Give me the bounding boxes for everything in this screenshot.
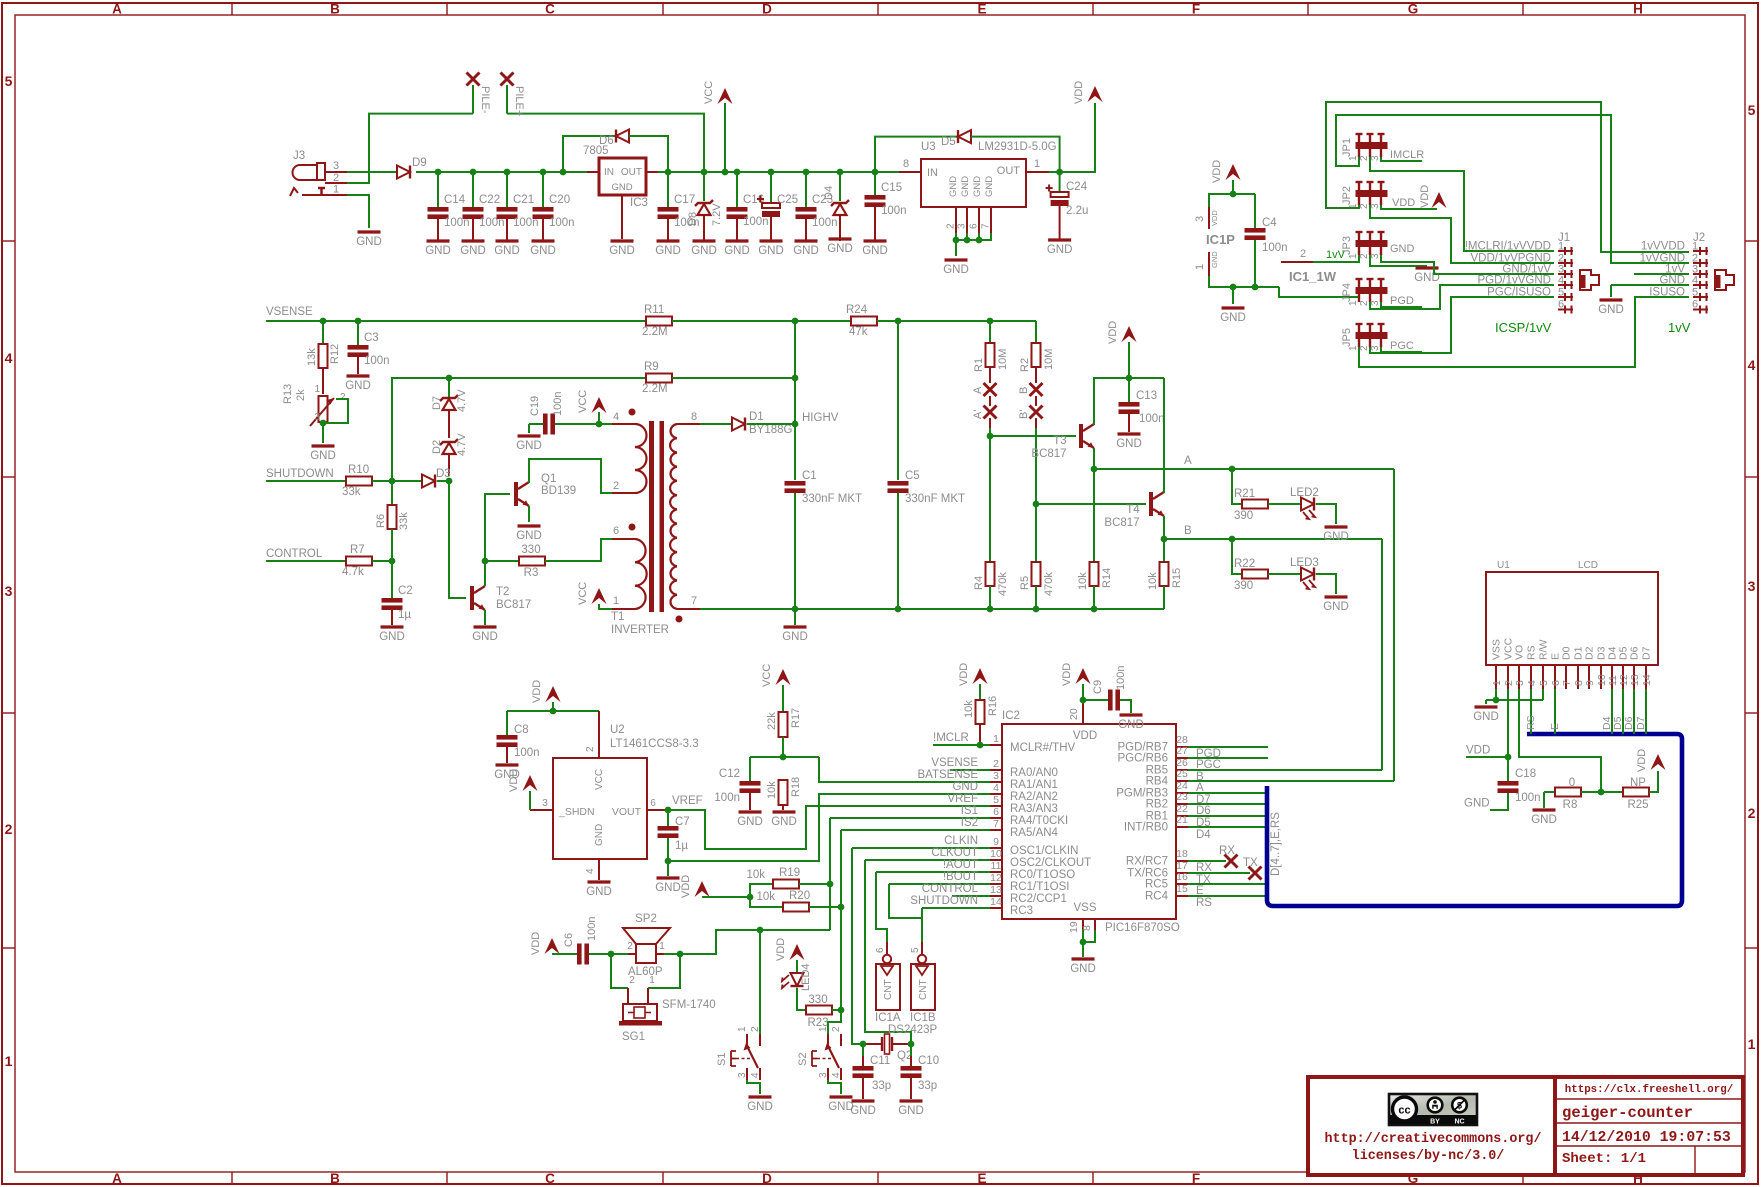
junction C5 top: [895, 318, 902, 325]
svg-text:4: 4: [1748, 357, 1756, 373]
ground T2: [474, 625, 497, 628]
ground C11: [852, 1099, 875, 1102]
svg-text:6: 6: [875, 947, 886, 953]
svg-text:2: 2: [750, 1026, 761, 1032]
svg-text:VDD: VDD: [1211, 160, 1223, 183]
ground C21: [496, 239, 519, 242]
ground Q1: [518, 524, 541, 527]
connector J3: [290, 150, 347, 196]
net stub PGC IC2: [1188, 758, 1268, 771]
svg-text:3: 3: [1194, 216, 1206, 222]
svg-text:VSS: VSS: [1073, 902, 1096, 914]
wire R7 to junction: [372, 560, 392, 562]
svg-text:GND: GND: [655, 882, 681, 894]
svg-text:GND: GND: [530, 245, 556, 257]
svg-text:4: 4: [613, 411, 619, 423]
svg-text:H: H: [1633, 2, 1643, 17]
wire VREF to IC2 pin5: [668, 806, 990, 849]
svg-text:1: 1: [1558, 241, 1564, 253]
wire JP5 pin2 to J1 pin5: [1370, 297, 1554, 353]
svg-text:S1: S1: [716, 1053, 728, 1066]
junction rail C22: [470, 169, 477, 176]
svg-text:C17: C17: [674, 194, 695, 206]
svg-text:12: 12: [990, 872, 1002, 884]
svg-text:6: 6: [650, 798, 656, 809]
junction R20 right: [838, 904, 845, 911]
capacitor C1: [785, 470, 863, 608]
svg-text:100n: 100n: [1115, 666, 1127, 690]
svg-text:R5: R5: [1019, 576, 1031, 590]
wire IC1P to JP4 pin1: [1279, 287, 1359, 302]
svg-text:1: 1: [1348, 253, 1359, 259]
svg-text:4: 4: [5, 350, 13, 366]
ground LCD: [1475, 705, 1498, 708]
svg-text:D6: D6: [1629, 646, 1641, 660]
svg-text:6: 6: [1692, 299, 1698, 311]
junction IC1P gnd: [1230, 284, 1237, 291]
resistor R21: [1234, 488, 1268, 522]
svg-text:IC3: IC3: [630, 197, 648, 209]
wire C7 gnd stem: [667, 861, 669, 876]
U3 ground pins 2 3 6 7: [946, 207, 992, 256]
wire R3 to T1 pin6: [545, 539, 614, 561]
svg-text:R21: R21: [1234, 488, 1255, 500]
svg-text:F: F: [1192, 2, 1200, 17]
capacitor C23: [796, 172, 838, 241]
svg-text:LT1461CCS8-3.3: LT1461CCS8-3.3: [610, 738, 699, 750]
svg-text:INVERTER: INVERTER: [611, 624, 669, 636]
connector J1: [1465, 232, 1599, 314]
junction A LED branch: [1229, 466, 1236, 473]
wire SG1 pin1: [648, 954, 680, 988]
wire R13 bottom: [322, 422, 324, 443]
wire BATSENSE to IC2 pin3: [819, 757, 990, 782]
microcontroller IC2 PIC16F870SO: [990, 697, 1188, 934]
wire LED2 gnd: [1316, 504, 1336, 524]
svg-text:RC1/T1OSI: RC1/T1OSI: [1010, 881, 1069, 893]
ground JP3: [1416, 266, 1439, 269]
junction C4 gnd: [1252, 284, 1259, 291]
svg-text:GND: GND: [494, 245, 520, 257]
svg-text:geiger-counter: geiger-counter: [1562, 1104, 1693, 1122]
wire R21 to LED2: [1268, 503, 1301, 505]
wire gnd net to IC2 pin4: [668, 794, 990, 861]
svg-text:10k: 10k: [1147, 572, 1159, 590]
svg-text:14/12/2010 19:07:53: 14/12/2010 19:07:53: [1562, 1130, 1731, 1146]
svg-text:390: 390: [1234, 580, 1253, 592]
svg-text:VDD: VDD: [1636, 749, 1648, 772]
svg-text:ICSP/1vV: ICSP/1vV: [1495, 320, 1552, 335]
svg-text:4: 4: [585, 868, 596, 874]
svg-text:GND: GND: [1220, 312, 1246, 324]
ground C19: [518, 434, 541, 437]
svg-text:27: 27: [1176, 745, 1188, 757]
svg-text:1: 1: [314, 384, 320, 395]
svg-text:4: 4: [831, 1072, 842, 1078]
svg-text:C12: C12: [719, 768, 740, 780]
wire IS2 S2 column: [828, 830, 841, 1034]
net stub PGD IC2: [1188, 747, 1268, 760]
net cross B prime: [1018, 406, 1043, 420]
svg-text:GND: GND: [611, 182, 632, 193]
svg-text:GND: GND: [898, 1105, 924, 1117]
net wire VDD LCD: [1466, 745, 1508, 758]
svg-text:GND: GND: [586, 886, 612, 898]
svg-text:R4: R4: [973, 576, 985, 590]
junction T1 pin4: [596, 421, 603, 428]
svg-text:10k: 10k: [963, 700, 975, 718]
ground C20: [532, 239, 555, 242]
svg-text:VDD: VDD: [508, 769, 520, 792]
wire T4 collector: [1163, 378, 1165, 493]
svg-text:VSENSE: VSENSE: [931, 757, 978, 769]
svg-text:C14: C14: [444, 194, 466, 206]
junction R4 bottom: [987, 606, 994, 613]
svg-text:SP2: SP2: [635, 913, 657, 925]
frame column ticks bottom: [231, 1172, 233, 1184]
svg-text:2k: 2k: [295, 389, 307, 401]
resistor R17: [766, 708, 802, 757]
svg-text:JP5: JP5: [1341, 328, 1353, 347]
svg-text:ISUSO: ISUSO: [1649, 287, 1685, 299]
svg-text:D4: D4: [823, 186, 835, 200]
port IC1_1W: [1281, 248, 1346, 284]
ground IC1P: [1222, 306, 1245, 309]
diode D5: [941, 130, 971, 148]
svg-text:3: 3: [957, 223, 968, 229]
net wire CLKIN: [852, 835, 990, 848]
svg-text:C21: C21: [513, 194, 534, 206]
junction rail C15: [872, 169, 879, 176]
svg-text:OSC2/CLKOUT: OSC2/CLKOUT: [1010, 857, 1091, 869]
svg-text:2: 2: [1748, 805, 1756, 821]
svg-text:5: 5: [1692, 287, 1698, 299]
svg-text:VCC: VCC: [703, 81, 715, 104]
svg-text:330: 330: [521, 544, 540, 556]
svg-text:!MCLRI/1vVVDD: !MCLRI/1vVVDD: [1465, 241, 1551, 253]
svg-text:4: 4: [993, 782, 999, 794]
svg-text:1: 1: [1194, 264, 1206, 270]
zener diode D2: [431, 433, 468, 476]
svg-text:GND: GND: [724, 245, 750, 257]
svg-text:VDD: VDD: [1073, 730, 1097, 742]
connector J2: [1640, 232, 1734, 314]
wire R11 to HIGHV column: [672, 320, 795, 322]
wire C12 R18 row: [750, 756, 819, 758]
svg-text:R11: R11: [644, 304, 664, 316]
svg-text:0: 0: [1569, 777, 1575, 789]
svg-text:33p: 33p: [918, 1080, 937, 1092]
wire JP3 pin3 to J1 pin3: [1381, 255, 1554, 274]
junction R13: [320, 420, 327, 427]
junction rail C17: [665, 169, 672, 176]
svg-text:100n: 100n: [586, 917, 598, 941]
resistor R12: [306, 321, 341, 394]
svg-text:IN: IN: [927, 167, 938, 179]
wire JP2 pin2 to J1 pin2: [1370, 205, 1554, 263]
wire R8 gnd: [1543, 792, 1545, 808]
svg-text:PILE+: PILE+: [513, 86, 525, 116]
svg-text:33p: 33p: [872, 1080, 891, 1092]
svg-text:390: 390: [1234, 510, 1253, 522]
wire SP2 pin1 junction: [664, 953, 680, 955]
svg-text:R12: R12: [329, 344, 341, 364]
svg-text:4: 4: [750, 1072, 761, 1078]
svg-text:RA3/AN3: RA3/AN3: [1010, 803, 1058, 815]
wire JP1 pin1 to J2 pin2: [1336, 115, 1689, 263]
svg-text:3: 3: [5, 583, 13, 599]
svg-text:VDD: VDD: [775, 938, 787, 961]
capacitor C22: [463, 172, 505, 241]
resistor R23: [806, 994, 832, 1029]
svg-text:100n: 100n: [743, 216, 769, 228]
svg-text:1: 1: [1348, 155, 1359, 161]
svg-text:13k: 13k: [306, 348, 318, 366]
svg-text:9: 9: [1584, 680, 1596, 686]
svg-text:C3: C3: [364, 332, 379, 344]
svg-text:E: E: [977, 2, 986, 17]
diode D6 bypass wire: [563, 136, 616, 172]
svg-text:E: E: [977, 1171, 986, 1186]
svg-text:PILE-: PILE-: [479, 86, 491, 114]
ground C9: [1120, 713, 1143, 716]
frame column ticks top: [231, 3, 233, 15]
zener diode D7: [431, 378, 468, 438]
power VDD arrow IC2 pin20: [1061, 663, 1091, 700]
capacitor C21: [497, 172, 539, 241]
svg-text:VREF: VREF: [947, 793, 978, 805]
ground C1: [784, 625, 807, 628]
junction SP2 pin1: [677, 951, 684, 958]
svg-text:G: G: [1408, 2, 1419, 17]
svg-text:6: 6: [993, 806, 999, 818]
junction U3 out: [1056, 169, 1063, 176]
svg-text:GND: GND: [1116, 438, 1142, 450]
svg-text:R7: R7: [350, 544, 365, 556]
capacitor C16: [727, 172, 765, 241]
svg-text:T2: T2: [496, 586, 509, 598]
net wire TX cross: [1188, 857, 1262, 886]
svg-text:CONTROL: CONTROL: [266, 548, 323, 560]
capacitor C9: [1083, 666, 1131, 713]
buzzer SG1 SFM-1740: [619, 975, 716, 1043]
svg-text:GND: GND: [516, 440, 542, 452]
resistor R19: [746, 867, 830, 897]
svg-text:3: 3: [333, 160, 339, 172]
svg-text:D6: D6: [1623, 716, 1635, 730]
svg-text:1: 1: [1692, 241, 1698, 253]
svg-text:cc: cc: [1398, 1105, 1410, 1117]
svg-text:3: 3: [1748, 578, 1756, 594]
junction VSENSE R12: [320, 318, 327, 325]
junction rail D6 branch: [560, 169, 567, 176]
svg-text:R18: R18: [790, 777, 802, 797]
svg-text:5: 5: [993, 794, 999, 806]
wire B riser to IC2: [1381, 539, 1383, 770]
svg-text:C22: C22: [479, 194, 500, 206]
svg-text:23: 23: [1176, 791, 1188, 803]
wire JP2 pin1 to J2 pin1: [1326, 102, 1689, 252]
junction rail C23: [803, 169, 810, 176]
wire B to R22: [1232, 539, 1242, 574]
junction C7 bottom: [665, 858, 672, 865]
svg-text:GND: GND: [425, 245, 451, 257]
resistor R5: [1019, 504, 1055, 609]
svg-text:VSENSE: VSENSE: [266, 306, 313, 318]
svg-text:IC1B: IC1B: [910, 1012, 936, 1024]
diode D3: [422, 468, 451, 488]
svg-text:T1: T1: [611, 611, 624, 623]
wire B' to T4 base: [1035, 418, 1037, 504]
ground D4: [829, 237, 852, 240]
bus wire D4 IC2: [1188, 827, 1265, 841]
svg-text:6: 6: [1558, 299, 1564, 311]
svg-text:C9: C9: [1092, 680, 1104, 694]
junction C5 bottom: [895, 606, 902, 613]
svg-text:U2: U2: [610, 724, 625, 736]
capacitor C3: [348, 321, 390, 374]
wire IC1_1W to JP3 pin1: [1313, 255, 1359, 262]
wire R2 cross gap: [1035, 396, 1037, 406]
creative commons badge: [1389, 1094, 1477, 1126]
svg-text:1vV: 1vV: [1668, 320, 1691, 335]
ground IC2: [1072, 957, 1095, 960]
svg-text:VDD: VDD: [1392, 197, 1415, 209]
transformer T1: [611, 409, 700, 637]
wire J3 pin2 riser: [347, 114, 473, 183]
resistor R1: [973, 321, 1009, 383]
wire SHUTDOWN down: [921, 908, 923, 918]
power VDD arrow U2 shdn: [508, 769, 538, 810]
net wire IS2: [841, 817, 990, 830]
ground J2: [1600, 298, 1623, 301]
junction C1 bottom: [792, 606, 799, 613]
junction rail VCC riser: [701, 169, 708, 176]
net stub 1vV J2 pin3: [1634, 273, 1689, 275]
wire JP5 pin1 to J2 pin5: [1359, 297, 1689, 367]
wire R1 cross gap: [989, 396, 991, 406]
svg-text:20: 20: [1068, 708, 1080, 720]
net wire VSENSE top: [266, 306, 646, 321]
jumper JP1: [1341, 134, 1388, 161]
svg-text:Q1: Q1: [541, 473, 556, 485]
svg-text:GND: GND: [737, 816, 763, 828]
wire LED4 to R23: [797, 988, 806, 1010]
svg-text:2.2M: 2.2M: [642, 383, 668, 395]
svg-text:JP4: JP4: [1341, 283, 1353, 302]
svg-text:C1: C1: [802, 470, 817, 482]
capacitor C12: [714, 757, 760, 810]
svg-text:IC1_1W: IC1_1W: [1289, 269, 1337, 284]
transistor T2 BC817: [470, 586, 531, 625]
junction rail D4: [837, 169, 844, 176]
svg-text:BD139: BD139: [541, 485, 576, 497]
capacitor C18: [1490, 757, 1541, 810]
svg-text:OUT: OUT: [621, 167, 642, 178]
svg-text:VDD: VDD: [1061, 663, 1073, 686]
ground C12: [739, 810, 762, 813]
wire D5 to U3 out: [971, 137, 1060, 172]
net cross A prime: [972, 406, 997, 420]
svg-text:R2: R2: [1019, 358, 1031, 372]
svg-text:D2: D2: [1584, 646, 1596, 660]
svg-text:GND: GND: [984, 176, 995, 197]
svg-text:JP1: JP1: [1341, 138, 1353, 157]
resistor R9: [642, 361, 672, 395]
net stub PILE-: [467, 73, 492, 114]
capacitor C15: [865, 172, 907, 241]
svg-text:22k: 22k: [766, 712, 778, 730]
svg-text:3: 3: [1370, 345, 1381, 351]
svg-text:BC817: BC817: [1104, 517, 1139, 529]
svg-text:RS: RS: [1526, 645, 1538, 660]
svg-text:16: 16: [1176, 871, 1188, 883]
transistor T3 BC817: [1031, 424, 1094, 460]
svg-text:D0: D0: [1561, 646, 1573, 660]
svg-text:A: A: [972, 386, 984, 394]
svg-text:C19: C19: [529, 396, 541, 416]
junction rail VCC arrow: [722, 169, 729, 176]
junction rail C20: [540, 169, 547, 176]
wire A' to junction: [989, 418, 991, 436]
svg-text:TX: TX: [1243, 857, 1258, 869]
wire IC2 vss pins: [1080, 930, 1095, 957]
wire JP1 pin2 to J1 pin1: [1370, 157, 1554, 251]
capacitor C4: [1245, 194, 1288, 287]
net wire SHUTDOWN row: [266, 468, 346, 481]
svg-text:VDD: VDD: [1073, 81, 1085, 104]
wire LED3 gnd: [1316, 574, 1336, 594]
svg-text:9: 9: [993, 836, 999, 848]
wire U3 out junction: [1049, 171, 1060, 173]
ground LED2: [1325, 525, 1348, 528]
svg-text:GND: GND: [972, 176, 983, 197]
svg-text:!MCLR: !MCLR: [933, 732, 969, 744]
wire T2 collector to Q1 base: [485, 494, 510, 586]
net stub VSENSE IC2: [931, 757, 990, 770]
svg-text:C6: C6: [563, 933, 575, 947]
wire Q1 collector to T1 pin2: [529, 459, 614, 493]
svg-text:100n: 100n: [812, 217, 838, 229]
junction IC1P vdd: [1230, 191, 1237, 198]
svg-text:PGC/RB6: PGC/RB6: [1118, 753, 1169, 765]
net wire B IC2: [1188, 770, 1382, 783]
svg-text:CNT: CNT: [883, 979, 894, 1000]
svg-text:3: 3: [1370, 155, 1381, 161]
wire S1 pin2 riser: [759, 930, 761, 1034]
svg-text:GND: GND: [1464, 798, 1490, 810]
svg-text:IC1P: IC1P: [1206, 232, 1235, 247]
wire LCD rs to bus: [1525, 689, 1537, 734]
net wire CONTROL row: [266, 548, 346, 561]
svg-text:21: 21: [1176, 814, 1188, 826]
svg-text:GND: GND: [948, 176, 959, 197]
svg-text:GND: GND: [1473, 711, 1499, 723]
svg-text:4: 4: [1692, 275, 1698, 287]
svg-text:C5: C5: [905, 470, 920, 482]
svg-text:C: C: [545, 1171, 555, 1186]
svg-text:BATSENSE: BATSENSE: [918, 769, 979, 781]
svg-text:5: 5: [910, 947, 921, 953]
svg-text:PGC/ISUSO: PGC/ISUSO: [1487, 287, 1551, 299]
svg-text:C24: C24: [1066, 181, 1088, 193]
svg-text:2: 2: [5, 821, 13, 837]
svg-text:A: A: [1184, 455, 1192, 467]
svg-text:10k: 10k: [746, 869, 765, 881]
svg-text:VCC: VCC: [577, 582, 589, 605]
svg-text:R/W: R/W: [1538, 640, 1550, 661]
svg-text:1: 1: [659, 941, 665, 952]
